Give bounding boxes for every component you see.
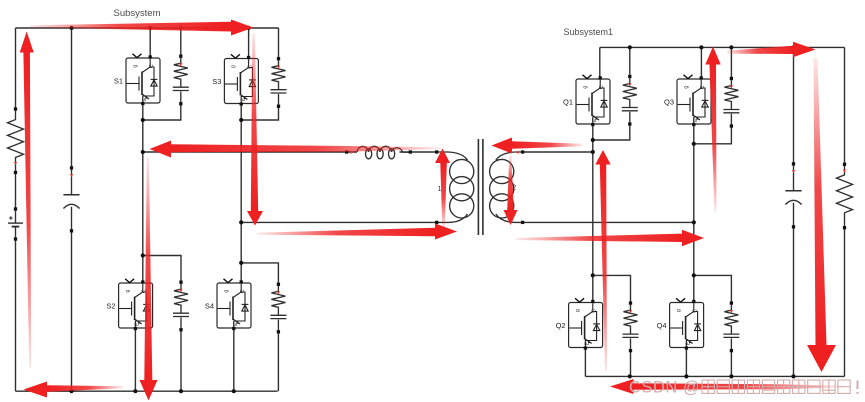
svg-text:S2: S2 [106,302,115,311]
svg-text:2: 2 [512,185,516,192]
svg-text:Q1: Q1 [563,98,573,107]
svg-text:S3: S3 [212,77,221,86]
svg-text:Subsystem1: Subsystem1 [564,27,614,37]
svg-text:CSDN @: CSDN @ [629,379,700,397]
svg-text:Q4: Q4 [657,321,667,330]
svg-text:Q2: Q2 [556,321,566,330]
svg-text:Subsystem: Subsystem [114,8,161,19]
svg-text:S4: S4 [205,302,214,311]
svg-text:S1: S1 [114,77,123,86]
svg-text:Q3: Q3 [664,98,674,107]
svg-text:1: 1 [438,186,442,193]
